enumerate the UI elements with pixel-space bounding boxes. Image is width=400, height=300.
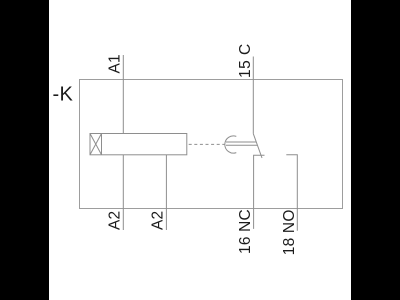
svg-text:A1: A1 xyxy=(107,54,124,73)
linkage bar bottom xyxy=(226,144,258,146)
svg-text:A2: A2 xyxy=(107,211,124,230)
relay K outline box xyxy=(80,80,343,209)
NC contact corner xyxy=(254,155,265,229)
coil K1 body xyxy=(90,134,187,155)
white schematic sheet xyxy=(49,0,351,300)
wire A1 xyxy=(122,55,124,134)
wire A2 left xyxy=(122,155,124,230)
coil X mark diagonal 2 xyxy=(90,134,102,155)
svg-text:-K: -K xyxy=(53,84,74,106)
NO contact corner xyxy=(286,155,297,231)
time-delay half-moon symbol xyxy=(225,136,236,153)
wire 15C (common) xyxy=(252,57,254,134)
svg-text:16 NC: 16 NC xyxy=(237,209,254,254)
coil divider xyxy=(101,134,103,155)
actuation link dashed wire xyxy=(189,143,225,145)
svg-text:18 NO: 18 NO xyxy=(281,209,298,255)
coil X mark diagonal 1 xyxy=(90,134,102,155)
svg-text:A2: A2 xyxy=(150,211,167,230)
linkage bar top xyxy=(226,141,256,143)
svg-text:15 C: 15 C xyxy=(237,43,254,78)
contact moving arm xyxy=(253,134,262,158)
wire A2 right xyxy=(165,155,167,230)
